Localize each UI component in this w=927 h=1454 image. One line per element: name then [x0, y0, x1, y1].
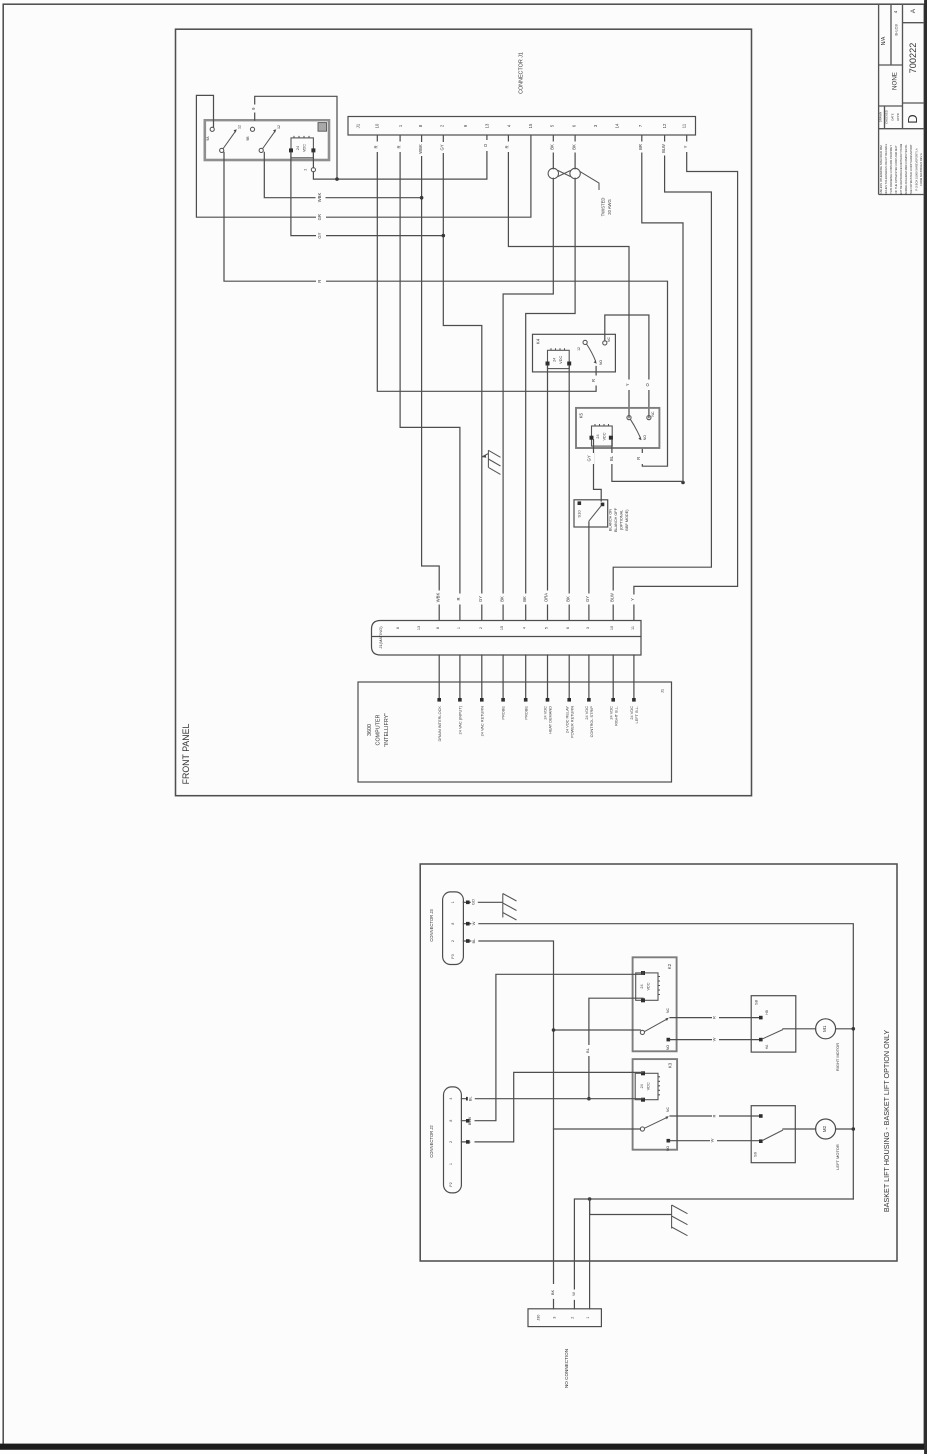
svg-text:A: A [910, 8, 917, 13]
wire K2 NO to S8 [670, 1039, 761, 1041]
svg-text:BL: BL [609, 455, 614, 461]
svg-text:5: 5 [545, 627, 549, 629]
svg-text:CONNECTOR J2: CONNECTOR J2 [429, 1125, 434, 1158]
wire GR: J1 pin15 to S1 terminal 9A [196, 95, 531, 217]
svg-text:HB: HB [765, 1010, 769, 1014]
svg-text:2: 2 [451, 940, 455, 942]
chassis ground at J3 [503, 894, 517, 921]
wire WBK: J1 pin8 to J1(MATING) [422, 135, 440, 620]
junction WBK row [420, 196, 424, 200]
svg-text:S10: S10 [577, 510, 582, 518]
svg-text:NO: NO [643, 435, 647, 440]
svg-text:12: 12 [277, 125, 281, 129]
svg-text:15: 15 [500, 626, 504, 630]
motor M2 [816, 1119, 836, 1139]
svg-text:PROBE: PROBE [523, 706, 528, 720]
J1 MATING divider [372, 636, 641, 638]
svg-text:R: R [374, 145, 379, 148]
K3 coil box [635, 1073, 658, 1099]
svg-text:J1(MATING): J1(MATING) [378, 626, 383, 649]
connector J1 MATING body [372, 621, 642, 656]
svg-text:P3: P3 [451, 954, 455, 958]
svg-text:6: 6 [396, 627, 400, 629]
svg-text:24: 24 [640, 984, 644, 988]
svg-text:NO: NO [666, 1146, 670, 1151]
svg-text:W: W [471, 921, 476, 925]
wire K3 NO to S9 [670, 1140, 761, 1142]
wire Y: J1 pin11 to J1(MATING) [634, 135, 738, 620]
wire BLW: J1 pin12 to J1(MATING) [613, 135, 711, 620]
svg-text:DRAIN INTERLOCK: DRAIN INTERLOCK [437, 706, 442, 742]
svg-text:2: 2 [479, 627, 483, 629]
FRONT PANEL enclosure [176, 29, 752, 796]
S1a lower terminal [220, 148, 224, 152]
title block outline [879, 4, 925, 195]
svg-text:LEFT B.L.: LEFT B.L. [634, 706, 639, 723]
svg-text:LEFT MOTOR: LEFT MOTOR [835, 1144, 840, 1170]
svg-text:BLW: BLW [661, 144, 666, 153]
computer box [358, 682, 672, 782]
svg-text:VDC: VDC [559, 356, 563, 364]
S1 coil terminals [289, 148, 293, 152]
svg-text:13: 13 [485, 123, 490, 128]
wire K2 coil top to J2 pin2 [461, 972, 643, 1121]
svg-text:NC: NC [666, 1107, 670, 1112]
svg-text:BK: BK [522, 596, 527, 602]
svg-text:BK: BK [550, 144, 555, 150]
svg-text:W: W [710, 1138, 715, 1142]
svg-text:M2: M2 [822, 1125, 827, 1132]
K4 switch arm [587, 344, 596, 361]
svg-text:3600: 3600 [367, 724, 373, 736]
wire 9: S1 top to node A [255, 96, 337, 179]
svg-text:WIRING DIAGRAM 3600 COMPUTER B: WIRING DIAGRAM 3600 COMPUTER BL [904, 144, 908, 195]
S1 coil 24VDC box [291, 138, 313, 158]
svg-text:WBK: WBK [418, 144, 423, 154]
svg-text:BK: BK [550, 1290, 555, 1296]
wire BR: J1 pin7 down right side [642, 135, 683, 482]
svg-text:GY: GY [585, 596, 590, 602]
K5 coil terminals [590, 436, 594, 440]
svg-text:NO CONNECTION: NO CONNECTION [564, 1349, 569, 1388]
svg-text:FRONT PANEL: FRONT PANEL [181, 724, 191, 785]
svg-text:24: 24 [296, 146, 300, 150]
svg-text:HEAT DEMAND: HEAT DEMAND [548, 706, 553, 734]
svg-text:W: W [712, 1037, 717, 1041]
wire motor M1 to right bus [836, 1028, 854, 1030]
wire WBK: S1b lower terminal to J1 pin8 [264, 152, 421, 197]
svg-text:NONE: NONE [892, 72, 899, 90]
svg-text:WBK: WBK [317, 193, 322, 203]
svg-text:10: 10 [375, 123, 380, 128]
svg-text:BK: BK [565, 596, 570, 602]
svg-text:S9: S9 [753, 1151, 758, 1157]
wire S9 common to motor M2 [783, 1128, 816, 1130]
wire K3 coil top to J2 pin3 [461, 1072, 643, 1142]
junction GY coil tap [442, 234, 446, 238]
svg-text:R: R [636, 457, 641, 460]
svg-text:R: R [456, 597, 461, 600]
connector J1 body [348, 117, 696, 136]
wire J3 pin3 to K2 common [554, 1029, 641, 1031]
svg-text:D: D [905, 114, 920, 123]
ground branch wire [590, 1199, 671, 1215]
svg-text:2: 2 [571, 1317, 575, 1319]
J3 pin1 wire to chassis ground [463, 901, 502, 903]
wire R: J1 pin10 to K4 NO [377, 135, 596, 391]
K3 NO terminal [667, 1139, 671, 1143]
wire R: S1a lower terminal to relay K5 NO [224, 152, 668, 466]
K5 NC terminal [647, 416, 651, 420]
wire ORA: K4 coil left to J1(MATING) [547, 366, 549, 621]
svg-text:BK: BK [571, 144, 576, 150]
svg-text:FORM NO 8050222 REV A: FORM NO 8050222 REV A [919, 153, 923, 186]
bottom connector body [528, 1309, 601, 1327]
svg-text:K4: K4 [536, 338, 541, 344]
motor M1 [816, 1019, 836, 1039]
scan edge right [924, 0, 927, 1454]
wire GY: K5 coil left to switch S10 [594, 440, 602, 501]
svg-text:UNLESS OTHERWISE SPECIFIED DIM: UNLESS OTHERWISE SPECIFIED DIM [879, 145, 883, 194]
svg-text:24 VAC RETURN: 24 VAC RETURN [479, 706, 484, 737]
wire K2 coil bottom to J2 pin1 line [589, 998, 643, 1098]
svg-text:R: R [396, 145, 401, 148]
S1 terminal 9A [210, 127, 214, 131]
svg-text:1: 1 [586, 1317, 590, 1319]
svg-text:M1: M1 [822, 1025, 827, 1032]
svg-text:COMPUTER: COMPUTER [376, 714, 382, 745]
svg-text:BL: BL [585, 1047, 590, 1053]
svg-text:12: 12 [238, 125, 242, 129]
svg-text:VDC: VDC [303, 144, 307, 152]
svg-text:VDC: VDC [647, 1082, 651, 1090]
J3 pin2 wire W down right side [463, 924, 853, 1199]
J1 MATING to computer pin wires [439, 655, 634, 699]
wire R: J1 pin4 to relay K5 common [508, 135, 629, 417]
svg-text:3: 3 [553, 1317, 557, 1319]
S8 terminals [759, 1016, 763, 1020]
svg-text:BR: BR [638, 144, 643, 150]
switch S10 box [574, 500, 608, 527]
svg-text:GY: GY [478, 596, 483, 602]
S1 label tag [318, 123, 327, 132]
K2 coil terminals [641, 971, 645, 975]
svg-text:24: 24 [553, 358, 557, 362]
wire K2 NC to S8 [670, 1017, 761, 1019]
svg-text:GY: GY [587, 455, 592, 461]
S9 terminals [759, 1114, 763, 1118]
svg-text:9B: 9B [246, 136, 250, 141]
wire BK: K4 coil right to J1(MATING) [568, 366, 570, 621]
K2 coil box [636, 973, 658, 1000]
svg-text:K2: K2 [667, 963, 672, 969]
svg-text:9A: 9A [206, 136, 210, 141]
svg-text:9: 9 [251, 107, 256, 110]
connector J2 body [444, 1087, 462, 1193]
K4 coil terminals [546, 362, 550, 366]
svg-text:8: 8 [436, 627, 440, 629]
J3 pin3 wire BL to K2 common and beyond [463, 941, 553, 1283]
svg-text:12: 12 [577, 347, 581, 351]
svg-text:Y: Y [630, 598, 635, 601]
svg-text:13: 13 [417, 626, 421, 630]
svg-text:K5: K5 [579, 412, 584, 418]
svg-text:WBK: WBK [435, 593, 440, 603]
svg-text:K3: K3 [668, 1062, 673, 1068]
svg-text:2: 2 [304, 169, 308, 171]
junction BR / K5 coil [681, 481, 685, 485]
svg-text:PROBE: PROBE [501, 706, 506, 720]
K2 switch arm [645, 1019, 667, 1031]
svg-text:ORA: ORA [544, 593, 549, 602]
S9 arm [763, 1130, 783, 1140]
svg-text:NC: NC [607, 337, 611, 342]
svg-text:BASKET LIFT HOUSING - BASKET L: BASKET LIFT HOUSING - BASKET LIFT OPTION… [882, 1030, 891, 1212]
wire BL: K5 coil right to BR junction [612, 440, 683, 482]
svg-text:(OPTIONAL: (OPTIONAL [620, 510, 624, 530]
svg-text:20 AWG: 20 AWG [607, 199, 612, 214]
S8 arm [763, 1030, 783, 1039]
svg-text:6: 6 [566, 627, 570, 629]
svg-text:DRAWN: DRAWN [879, 112, 883, 122]
svg-text:P2: P2 [449, 1182, 453, 1186]
junction K2 coil / J2 pin1 [587, 1097, 591, 1101]
K4 NC terminal [603, 341, 607, 345]
svg-text:12: 12 [662, 123, 667, 128]
wire GY: S1 coil left to J1 pin2 [291, 152, 443, 235]
svg-text:24 VAC (INPUT): 24 VAC (INPUT) [458, 705, 463, 734]
svg-text:4: 4 [523, 627, 527, 629]
svg-text:R: R [505, 145, 510, 148]
svg-text:R: R [317, 280, 322, 283]
svg-text:THIS DRAWING CONTAINS PROPRIET: THIS DRAWING CONTAINS PROPRIET [889, 145, 893, 194]
wire node A: S1 coil terminal 2 to J1 pin13 [313, 135, 487, 179]
S1b lower terminal [259, 148, 263, 152]
svg-text:BK: BK [499, 596, 504, 602]
svg-text:GY: GY [317, 232, 322, 238]
svg-text:RIGHT MOTOR: RIGHT MOTOR [835, 1043, 840, 1071]
svg-text:B-LC8: B-LC8 [894, 24, 899, 36]
svg-text:GD: GD [470, 899, 475, 905]
svg-text:24: 24 [596, 434, 600, 438]
svg-text:P O BOX 51000 SHREVEPORT LA: P O BOX 51000 SHREVEPORT LA [915, 148, 919, 191]
svg-text:3: 3 [586, 627, 590, 629]
K3 switch common [640, 1127, 644, 1131]
svg-text:NC: NC [666, 1008, 670, 1013]
svg-text:CONNECTOR J3: CONNECTOR J3 [429, 909, 434, 942]
K5 coil box [592, 426, 613, 446]
wire motor M2 to right bus [836, 1128, 854, 1130]
svg-text:DATE: DATE [891, 113, 895, 120]
svg-text:8: 8 [451, 923, 455, 925]
wire tails to bottom connector [554, 1300, 575, 1309]
junction node A [335, 177, 339, 181]
svg-text:15: 15 [528, 123, 533, 128]
S10 terminals [578, 501, 582, 505]
svg-text:RIGHT B.L.: RIGHT B.L. [613, 706, 618, 726]
wire K3 NC to S9 [670, 1115, 761, 1117]
K3 coil terminals [641, 1071, 645, 1075]
svg-text:4: 4 [449, 1098, 453, 1100]
wire O: J1 pin13 vertical (node A) [484, 140, 491, 151]
relay K5 box [576, 408, 659, 448]
wire R: J1 pin1 to J1(MATING) [400, 135, 460, 620]
svg-text:W: W [571, 1292, 576, 1296]
svg-text:R: R [591, 379, 596, 382]
svg-text:TWISTED: TWISTED [601, 198, 606, 217]
svg-text:NOT BE REPRODUCED WITHOUT PERM: NOT BE REPRODUCED WITHOUT PERM [899, 143, 903, 195]
svg-text:24: 24 [640, 1084, 644, 1088]
svg-text:BL: BL [471, 938, 476, 944]
wire BK: J1 pin5 to J1(MATING) probe [503, 135, 553, 620]
J2 pin1 wire to K2/K3 coils [461, 1098, 643, 1100]
svg-text:BL: BL [467, 1096, 472, 1102]
S1a switch arm [223, 131, 236, 149]
svg-text:THE FRYMASTER CORP SHREVEPORT: THE FRYMASTER CORP SHREVEPORT [909, 144, 913, 195]
K2 switch common [640, 1030, 644, 1034]
wire GY: J1 pin2 to J1(MATING) with ground tap [443, 135, 482, 620]
connector J3 body [443, 892, 464, 965]
svg-text:11: 11 [682, 123, 687, 128]
svg-text:BLW: BLW [609, 593, 614, 602]
S1b switch arm [263, 131, 276, 149]
svg-text:"INTELLIFRY": "INTELLIFRY" [384, 713, 390, 747]
svg-text:NO: NO [666, 1045, 670, 1050]
K2 NO terminal [667, 1038, 671, 1042]
K5 switch arm [630, 419, 640, 437]
svg-text:R: R [712, 1114, 717, 1117]
chassis ground on GY wire [482, 450, 501, 474]
svg-text:POWER RETURN: POWER RETURN [569, 706, 574, 738]
wire BK: J1 pin6 to J1(MATING) probe [526, 135, 575, 620]
svg-text:OF THE FRYMASTER CORP AND MAY: OF THE FRYMASTER CORP AND MAY [894, 145, 898, 193]
svg-text:J30: J30 [537, 1315, 541, 1321]
svg-text:S8: S8 [754, 999, 759, 1005]
svg-text:INCHES TOLERANCES FRACT DECIMA: INCHES TOLERANCES FRACT DECIMAL [884, 143, 888, 195]
svg-text:1: 1 [457, 627, 461, 629]
svg-text:CHECKED: CHECKED [885, 110, 889, 124]
svg-text:GR: GR [317, 214, 322, 220]
relay K3 box [633, 1059, 678, 1150]
svg-text:N/A: N/A [881, 36, 887, 45]
svg-text:NO: NO [599, 360, 603, 365]
svg-text:1: 1 [449, 1163, 453, 1165]
limit switch S8 box [751, 996, 796, 1052]
switch assembly S1 box [205, 120, 329, 160]
svg-text:VDC: VDC [647, 982, 651, 990]
wire stub to bottom connector pin3 [589, 1199, 591, 1309]
twisted pair callout [580, 171, 599, 190]
svg-text:J1: J1 [356, 123, 361, 128]
svg-text:11: 11 [631, 626, 635, 630]
svg-text:8: 8 [449, 1120, 453, 1122]
bottom return bus wire [574, 1199, 853, 1289]
svg-text:R: R [712, 1016, 717, 1019]
K5 switch common [627, 416, 631, 420]
K4 switch common [583, 340, 587, 344]
wire K3 common from J3 pin3 [554, 1128, 641, 1130]
limit switch S9 box [751, 1106, 795, 1163]
svg-text:2: 2 [449, 1141, 453, 1143]
relay K4 box [533, 334, 616, 372]
S10 common wire to J1(MATING) [588, 522, 590, 621]
S1 terminal 9B [250, 127, 254, 131]
basket lift enclosure [420, 864, 897, 1261]
scan edge bottom [0, 1444, 927, 1450]
svg-text:CONNECTOR J1: CONNECTOR J1 [519, 52, 525, 94]
svg-text:VDC: VDC [603, 432, 607, 440]
svg-text:NC: NC [651, 411, 655, 416]
svg-text:14: 14 [615, 123, 620, 128]
svg-text:APPR: APPR [896, 113, 900, 121]
svg-text:GY: GY [440, 144, 445, 150]
svg-text:BLANCH OFF: BLANCH OFF [614, 507, 618, 532]
svg-text:Y: Y [683, 145, 688, 148]
S10 arm [589, 506, 601, 521]
K3 switch arm [645, 1118, 667, 1129]
svg-text:Y: Y [625, 383, 630, 386]
computer pin pads [437, 698, 441, 702]
svg-text:CONTROL STRIP: CONTROL STRIP [589, 706, 594, 738]
K4 coil box [548, 350, 570, 368]
twisted pair symbol [548, 168, 558, 178]
svg-text:BLANCH ON: BLANCH ON [609, 509, 613, 531]
svg-text:700222: 700222 [908, 43, 918, 74]
wire O: K4 NC to K5 NC [605, 315, 649, 418]
S1 coil terminal 2 [311, 168, 315, 172]
wire S8 common to motor M1 [783, 1028, 816, 1030]
chassis ground at basket lift [672, 1205, 688, 1236]
svg-text:BBF MODE): BBF MODE) [625, 509, 629, 531]
svg-text:10: 10 [610, 626, 614, 630]
svg-text:1: 1 [451, 901, 455, 903]
relay K2 box [633, 957, 677, 1051]
